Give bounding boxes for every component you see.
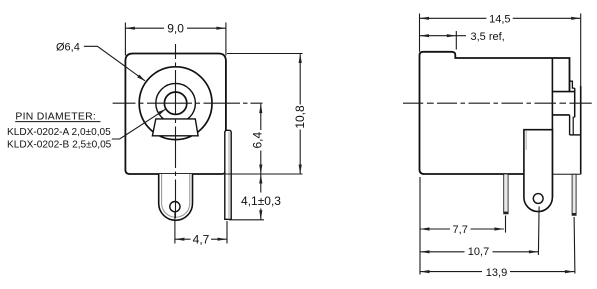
bottom tab (center pin lug) — [159, 174, 193, 220]
svg-text:KLDX-0202-B 2,5±0,05: KLDX-0202-B 2,5±0,05 — [7, 139, 112, 150]
left pcb pin — [504, 174, 508, 214]
pin base trapezoid — [152, 119, 198, 136]
svg-text:4,1±0,3: 4,1±0,3 — [241, 194, 281, 208]
dim 9.0 extension lines — [124, 23, 126, 56]
terminal block right edge — [574, 88, 576, 117]
back steps — [570, 81, 575, 88]
footing top — [570, 134, 581, 136]
dim 10.8 top extension — [227, 53, 303, 55]
terminal block top — [552, 91, 574, 93]
svg-text:7,7: 7,7 — [453, 224, 468, 236]
dim 3.5 line — [420, 35, 457, 37]
svg-text:KLDX-0202-A 2,0±0,05: KLDX-0202-A 2,0±0,05 — [7, 127, 111, 138]
dim 10.7 line — [420, 251, 465, 253]
svg-text:PIN DIAMETER:: PIN DIAMETER: — [15, 112, 96, 123]
dim 7.7 extension right — [505, 216, 507, 233]
flange inner gray line — [228, 132, 230, 218]
body square front view — [125, 54, 225, 175]
middle circle — [156, 83, 196, 123]
svg-text:3,5 ref,: 3,5 ref, — [471, 31, 505, 43]
svg-text:10,7: 10,7 — [468, 246, 489, 258]
back plate right edge — [580, 86, 582, 174]
dim 4.1 line — [260, 174, 262, 193]
footing bottom — [552, 173, 580, 175]
terminal block bottom — [552, 114, 569, 116]
tab inner fold line — [162, 174, 190, 217]
dim 6.4 line — [260, 104, 262, 130]
dim 13.9 extension (from right pin) — [573, 217, 576, 274]
horizontal centerline — [113, 102, 263, 104]
dim 10.8 line — [299, 54, 301, 105]
right flange (side lug edge-on) — [225, 130, 231, 219]
outer circle O6.4 — [139, 67, 212, 140]
dim 4.7 line — [175, 238, 191, 240]
bottom dims: left long extension — [419, 177, 421, 275]
svg-text:9,0: 9,0 — [167, 22, 184, 36]
dim 14.5 line — [420, 17, 487, 19]
svg-text:10,8: 10,8 — [293, 105, 307, 129]
dim 14.5 extensions — [419, 14, 421, 52]
dim 3.5 extension — [455, 31, 457, 50]
lug hole — [533, 194, 543, 204]
vertical below block — [569, 115, 571, 135]
vertical centerline — [175, 44, 177, 218]
right pcb pin — [572, 174, 576, 215]
svg-text:13,9: 13,9 — [486, 267, 507, 279]
dim 7.7 line — [420, 228, 450, 230]
dim 4.7 extensions — [174, 212, 176, 243]
lug inner gray line — [525, 131, 527, 150]
dim 10.8 / 6.4 bottom extension — [222, 173, 303, 175]
leader pin diameter — [112, 109, 166, 139]
back internal vertical — [551, 58, 553, 197]
dim 9.0 line — [125, 27, 164, 29]
inner circle pin — [164, 92, 186, 114]
small step under plate — [573, 117, 575, 135]
dim 10.7 extension (from lug hole) — [537, 207, 540, 256]
dim 4.1 bottom extension — [229, 219, 264, 221]
svg-text:4,7: 4,7 — [193, 233, 210, 247]
horizontal centerline side view — [403, 102, 592, 104]
svg-text:14,5: 14,5 — [489, 14, 510, 26]
side body outline — [420, 52, 570, 174]
side lug with hole — [524, 130, 553, 212]
tab hole — [170, 202, 180, 212]
leader O6.4 — [84, 46, 145, 81]
dim 13.9 line — [420, 271, 482, 273]
svg-text:Ø6,4: Ø6,4 — [56, 41, 80, 53]
svg-text:6,4: 6,4 — [251, 132, 265, 149]
